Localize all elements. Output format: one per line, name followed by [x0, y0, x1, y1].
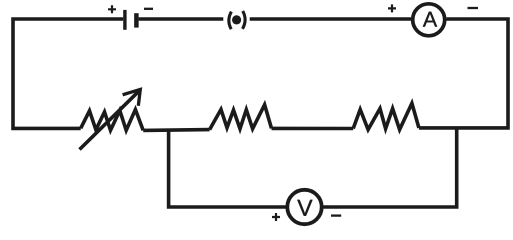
- ammeter minus label: [468, 7, 479, 9]
- plug key dot: [232, 15, 241, 24]
- voltmeter V1 circle: [287, 190, 321, 224]
- battery minus label: [144, 8, 153, 10]
- voltmeter plus label: [272, 213, 280, 221]
- rheostat arrow shaft: [80, 91, 139, 149]
- voltmeter V letter: [297, 200, 312, 216]
- battery cell: long positive plate: [123, 10, 126, 30]
- wire top-left + left vertical + middle-left segment to rheostat: [13, 19, 123, 128]
- wire ammeter to top-right corner + right vertical + middle-right segment to R2: [419, 19, 508, 128]
- wire voltmeter branch left: junction down + bottom run to voltmeter: [169, 130, 286, 207]
- ammeter A letter: [423, 12, 437, 27]
- wire rheostat to resistor R1 (with voltmeter junction): [143, 128, 209, 132]
- wire battery to plug key: [139, 17, 224, 21]
- rheostat RH zigzag: [81, 110, 144, 131]
- battery plus label: [108, 5, 116, 13]
- resistor R2 zigzag: [353, 103, 419, 129]
- wire plug key to ammeter: [250, 17, 411, 21]
- plug key right bracket: [243, 11, 246, 29]
- plug key left bracket: [229, 12, 232, 30]
- voltmeter minus label: [331, 214, 341, 216]
- rheostat arrow head: [123, 89, 141, 105]
- wire voltmeter branch right: bottom run from voltmeter + junction up: [323, 128, 456, 207]
- ammeter A1 circle: [413, 4, 445, 36]
- resistor R1 zigzag: [210, 105, 272, 130]
- battery cell: short negative plate: [134, 13, 139, 27]
- ammeter plus label: [388, 4, 396, 12]
- wire resistor R1 to resistor R2: [272, 127, 354, 131]
